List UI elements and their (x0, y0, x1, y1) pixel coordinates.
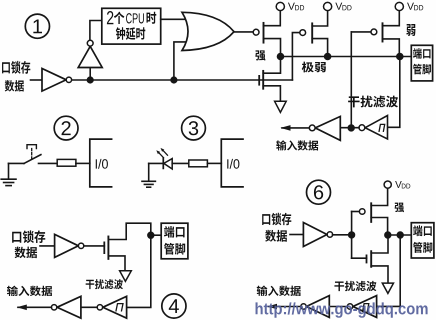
inverter U7 (circuit 4) (57, 296, 81, 318)
wire: pin node line to port pin box (281, 56, 412, 58)
wire: U9 output to inverter U10 (329, 306, 347, 308)
resistor R1 (57, 159, 76, 166)
wire: U2 output to delay block (90, 21, 102, 41)
wire: gate riser to Q6 and Q7 gates (351, 212, 353, 259)
wire: U8 output to gate riser (333, 234, 352, 236)
junction: gate riser (circuit 6) (349, 232, 355, 238)
circuit 1 number label (25, 14, 49, 38)
junction: Q4 drain on pin node (397, 54, 403, 60)
switch S1 (9, 162, 25, 164)
ground (LED D1 cathode) (148, 163, 150, 181)
schmitt trigger U6 (circuit 4) (103, 296, 127, 318)
wire: U2 input stem (89, 68, 91, 81)
power VDD (Q3) (324, 2, 332, 10)
wire: S1 to resistor R1 (39, 162, 58, 164)
wire: pin node down to Schmitt U6 (circuit 4) (127, 235, 151, 307)
LED light arrows (158, 152, 163, 157)
wire: gate line from U1 to n-channel Q2 gate and p2 gate riser (72, 79, 292, 81)
value label: interference filter (circuit 6) (334, 281, 376, 291)
wire: R1 to I/O pin (circuit 2) (76, 162, 90, 164)
inverter U2 (drives delay block) (78, 46, 102, 67)
node: I/O pin bracket (circuit 3) (221, 139, 243, 187)
transistor Q7 (pull-down nFET, circuit 6) (352, 257, 367, 259)
transistor Q4 (weak pull-up pFET) (351, 31, 371, 33)
circuit 6 number label (307, 180, 331, 204)
wire: latch data to buffer U8 (290, 234, 303, 236)
node: I/O pin bracket (circuit 2) (90, 139, 112, 187)
value label: strong (Q1) (255, 50, 265, 60)
wire: latch line to NOR gate bottom input (174, 42, 187, 80)
circuit 2 number label (54, 116, 78, 140)
wire: pin node down to Schmitt U3 input (388, 57, 400, 128)
wire: pin node to port pin box (circuit 4) (151, 234, 161, 236)
delay block: 2 CPU clock delay (102, 8, 161, 44)
wire: U3 output to inverter U4, junction to Q4 gate (340, 127, 359, 129)
circuit 4 number label (162, 294, 186, 318)
ground (Q5 source) (120, 271, 132, 282)
node: input data label (circuit 6) (257, 286, 301, 296)
wire: R2 to I/O pin (circuit 3) (207, 162, 221, 164)
wire: input data arrow (circuit 6) (269, 306, 301, 308)
port pin box (circuit 6) (411, 223, 434, 258)
ground (Q2 source) (275, 101, 287, 112)
inverter U10 (circuit 6) (306, 296, 329, 318)
ground (Q7 source) (382, 283, 393, 293)
circuit 3 number label (182, 116, 206, 140)
inverter U4 (input path, circuit 1) (315, 116, 340, 140)
node B: pin node junction (circuit 4) (148, 232, 154, 238)
wire: pin node down to Schmitt U9 (circuit 6) (377, 235, 401, 306)
node A: pin node junction at Q1/Q2 drains (278, 54, 284, 60)
wire: delay block to NOR gate top input (161, 18, 186, 20)
transistor Q3 (very weak pull-up pFET) (300, 30, 306, 36)
power VDD (Q1) (276, 2, 284, 10)
OR gate G1 (182, 12, 234, 50)
transistor Q2 (pull-down nFET, circuit 1) (258, 76, 260, 85)
buffer U8 (circuit 6) (303, 223, 327, 247)
port pin box (circuit 4) (161, 223, 188, 259)
wire: input data arrow (circuit 1) (282, 127, 309, 129)
power VDD (Q6) (384, 181, 391, 188)
value label: very weak (Q3) (302, 62, 326, 73)
schmitt trigger U9 (circuit 6) (353, 296, 377, 318)
wire: U6 output to inverter U7 (81, 306, 97, 308)
port pin box (circuit 1) (411, 45, 432, 81)
wire: D1 to resistor R2 (172, 162, 189, 164)
junction at inverter U2 stem (87, 77, 93, 83)
wire: pin node to port pin box (circuit 6) (388, 234, 412, 236)
node C: pin node junction (circuit 6) (385, 232, 391, 238)
LED D1 (149, 162, 164, 164)
schmitt trigger U3 (circuit 1) (365, 116, 387, 140)
wire: gate riser to very-weak pull-up Q3 gate (292, 33, 299, 80)
junction: input branch (circuit 6) (397, 232, 403, 238)
buffer U1 (latch data inverter, circuit 1) (42, 69, 66, 92)
ground (switch S1) (8, 163, 10, 179)
node: port latch data label (circuit 6) (262, 213, 291, 242)
value label: interference filter (circuit 1) (348, 96, 398, 108)
wire: input data arrow (circuit 4) (18, 306, 51, 308)
resistor R2 (189, 160, 208, 167)
wire: G1 output to Q1 gate (234, 31, 253, 33)
wire: latch data input to buffer U1 (31, 79, 43, 81)
power VDD (Q4) (395, 2, 403, 10)
wire: U5 output to Q5 gate (84, 245, 105, 247)
transistor Q5 (open-drain nFET, circuit 4) (103, 242, 105, 253)
transistor Q6 (strong pull-up pFET, circuit 6) (359, 209, 365, 215)
transistor Q1 (strong pull-up pFET, circuit 1) (253, 29, 259, 35)
junction: Q3 drain on pin node (325, 54, 331, 60)
value label: weak (Q4) (406, 24, 415, 36)
watermark (256, 302, 428, 317)
buffer U5 (circuit 4) (55, 234, 79, 257)
node: input data label (circuit 4) (7, 286, 52, 296)
node: port latch data label (circuit 4) (12, 230, 45, 258)
value label: strong (Q6) (395, 203, 404, 213)
junction at NOR input branch (171, 77, 177, 83)
node: port latch data label (circuit 1) (2, 61, 30, 92)
node: input data label (circuit 1) (276, 140, 318, 150)
value label: interference filter (circuit 4) (86, 279, 123, 289)
wire: latch data to buffer U5 (40, 245, 55, 247)
